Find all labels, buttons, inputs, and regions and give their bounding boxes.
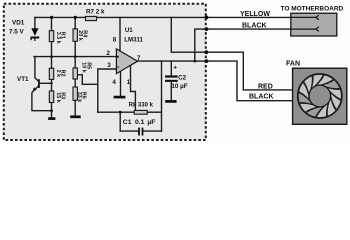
op-amp plus mark	[117, 56, 119, 58]
svg-text:8: 8	[113, 37, 117, 44]
wire: net to R8 left terminal	[98, 111, 134, 113]
wire: VT1 emitter to ground run	[32, 86, 52, 111]
ground under C2	[165, 100, 176, 103]
resistor R4	[73, 29, 77, 41]
resistor R6	[73, 87, 77, 100]
rotated label R4 20 k	[77, 30, 88, 41]
wire: R4 top lead	[74, 17, 76, 29]
node: R1 top on supply rail	[50, 16, 53, 19]
rotated label R5 10 k	[81, 62, 92, 72]
wire: C1 right lead	[143, 130, 161, 132]
zener diode VD1	[31, 28, 40, 41]
svg-text:C2: C2	[178, 75, 187, 82]
wire: inverting input riser (pin3 / R8 / C1 net)	[98, 69, 117, 112]
wire: VT1 collector vertical	[35, 57, 38, 81]
svg-text:15 k: 15 k	[55, 92, 61, 103]
svg-text:µF: µF	[147, 119, 155, 126]
wire: C2 top lead from output	[170, 61, 172, 75]
svg-text:2 k: 2 k	[55, 70, 61, 78]
motherboard connector box	[291, 13, 337, 36]
wire: R6 bottom to ground	[74, 100, 76, 115]
wire: C1 left branch	[120, 112, 138, 131]
wire: pin 1 jog down to R8 left	[131, 65, 136, 111]
wire: stabilized top rail left section	[35, 16, 86, 18]
wire: R5 trimmer tap	[77, 75, 82, 85]
svg-text:7: 7	[137, 55, 141, 62]
svg-text:20 k: 20 k	[77, 30, 83, 41]
ground under R6	[70, 115, 81, 118]
fan hub	[309, 85, 331, 107]
op-amp U1 triangle	[116, 49, 137, 74]
svg-text:+: +	[173, 64, 177, 71]
svg-text:7.5 V: 7.5 V	[9, 29, 25, 36]
svg-text:0.1: 0.1	[135, 119, 145, 126]
svg-text:R7 2 k: R7 2 k	[86, 9, 105, 16]
wire: R3 bottom to ground	[51, 103, 53, 118]
svg-text:FAN: FAN	[286, 61, 300, 68]
wire: C2 bottom to ground	[170, 82, 172, 100]
svg-text:10 k: 10 k	[81, 62, 87, 72]
svg-text:U1: U1	[125, 27, 133, 34]
node: black fan wire terminal at border	[205, 59, 209, 63]
svg-text:YELLOW: YELLOW	[240, 11, 270, 18]
svg-text:4: 4	[112, 79, 116, 86]
ground under pin 4	[114, 96, 126, 99]
ground under R3	[48, 117, 55, 120]
svg-text:10 µF: 10 µF	[171, 83, 187, 90]
op-amp minus mark	[117, 66, 120, 68]
node: R1/R2 junction on +input wire	[50, 55, 53, 58]
resistor R8	[134, 110, 147, 114]
resistor R2	[49, 68, 53, 79]
svg-text:TO MOTHERBOARD: TO MOTHERBOARD	[281, 5, 344, 12]
wire: R1 top lead	[51, 17, 53, 30]
svg-text:VD1: VD1	[12, 20, 25, 27]
wire: non-inverting input net (VT1 collector to pin 2)	[34, 56, 116, 58]
resistor R7	[86, 16, 97, 20]
svg-text:VT1: VT1	[17, 76, 29, 83]
node: C1 left tap on R8 wire	[119, 111, 122, 114]
svg-text:LM311: LM311	[124, 36, 143, 43]
svg-text:R8 330 k: R8 330 k	[129, 103, 154, 109]
svg-text:3: 3	[107, 62, 111, 69]
wire: pin 4 to ground	[120, 71, 122, 96]
transistor VT1	[33, 79, 40, 92]
wire: op-amp pin 8 lead from rail	[119, 17, 121, 50]
node: output to motherboard-black junction	[193, 60, 196, 63]
node: red fan wire terminal at border	[205, 50, 209, 54]
rotated label R3 15 k	[55, 92, 66, 103]
wire: VD1 cathode lead from rail	[34, 17, 36, 27]
svg-text:33 k: 33 k	[76, 92, 82, 103]
svg-text:RED: RED	[258, 83, 273, 90]
node: yellow wire terminal at border	[205, 16, 209, 20]
fan box	[293, 68, 347, 124]
wire: R2 bottom to R3 top	[51, 79, 53, 91]
wire: output down to R8 right / C1 right	[161, 61, 163, 131]
wire: VT1 base lead	[40, 82, 52, 84]
wire: rail down to fan red feed	[171, 17, 292, 90]
resistor R1	[49, 31, 53, 42]
resistor R5	[73, 68, 77, 79]
wire: R1 bottom to R2 top	[51, 42, 53, 69]
fan blades	[298, 74, 342, 118]
node: emitter/R3 ground junction	[50, 109, 53, 112]
wire: comparator output pin 7 to fan black	[138, 61, 293, 101]
svg-text:BLACK: BLACK	[242, 23, 267, 30]
wire: top rail right section to motherboard (YELLOW)	[97, 16, 316, 18]
svg-text:C1: C1	[123, 119, 132, 126]
redraw contact wires over box	[291, 17, 316, 29]
svg-text:2: 2	[106, 50, 110, 57]
svg-text:3.3 k: 3.3 k	[55, 32, 61, 44]
node: R4 top on supply rail	[74, 16, 77, 19]
wire: black signal to motherboard	[195, 29, 316, 61]
wire: R5 bottom to R6 top	[74, 79, 76, 87]
rotated label R6 33 k	[76, 92, 87, 103]
node: black motherboard wire terminal at border	[205, 27, 209, 31]
resistor R3	[49, 91, 53, 103]
node: R4/R5 junction on +input wire	[74, 55, 77, 58]
wire: tap across to inverting input riser	[82, 83, 98, 85]
svg-text:BLACK: BLACK	[249, 94, 274, 101]
svg-text:1: 1	[127, 79, 131, 86]
wire: R8 right lead	[147, 111, 161, 113]
capacitor C2 plates	[165, 75, 178, 77]
node: VT1 base at R2/R3 junction	[50, 82, 52, 84]
rotated label R1 3.3 k	[55, 32, 66, 44]
wire: R4 bottom to R5 top	[74, 41, 76, 68]
rotated label R2 2 k	[55, 70, 66, 78]
capacitor C1 plates	[138, 128, 140, 136]
